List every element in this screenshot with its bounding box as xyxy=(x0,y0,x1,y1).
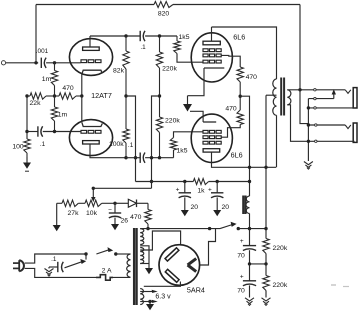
jack J2 tip spring xyxy=(345,125,351,129)
node 82k top xyxy=(124,34,127,37)
wire plate1 line xyxy=(212,27,277,79)
wire cap to grid xyxy=(46,62,81,64)
beamplates 6L6 2 xyxy=(203,141,208,144)
plate 6L6 2 xyxy=(203,149,220,152)
wire bias-B line xyxy=(136,181,194,183)
screen 6L6 2 xyxy=(203,136,208,139)
rectifier filament xyxy=(188,259,197,265)
resistor 220k grid1 xyxy=(159,36,161,52)
transformer OT secondary xyxy=(287,90,291,105)
svg-text:.1: .1 xyxy=(40,141,46,148)
svg-text:100k: 100k xyxy=(109,141,124,148)
svg-text:220k: 220k xyxy=(165,118,180,125)
wire plate line A right xyxy=(145,35,177,37)
node B+ choke xyxy=(248,227,251,230)
wire cathode A down xyxy=(81,74,83,96)
node heater gnd xyxy=(148,300,151,303)
svg-text:.1: .1 xyxy=(51,256,57,263)
svg-text:−: − xyxy=(108,207,112,214)
cathode 12AT7 B xyxy=(82,123,102,127)
capacitor .1 input2 xyxy=(37,126,39,136)
capacitor .1 line xyxy=(57,262,59,272)
svg-text:20: 20 xyxy=(222,204,230,211)
wire left column top xyxy=(26,96,28,138)
svg-text:820: 820 xyxy=(158,11,170,18)
wire plate A up xyxy=(89,36,91,47)
rectifier 5AR4 envelope xyxy=(159,245,200,286)
node plate B line xyxy=(124,156,127,159)
svg-text:.1: .1 xyxy=(140,44,146,51)
wire screen node right xyxy=(240,96,249,196)
node jack2 sleeve circ xyxy=(315,140,317,142)
ground cap20b xyxy=(216,209,218,211)
node grid junction xyxy=(53,61,56,64)
screen 6L6 1 xyxy=(203,54,208,57)
node B+ CT xyxy=(264,227,267,230)
wire jack2 tip line xyxy=(308,124,345,126)
rectifier plate top xyxy=(166,249,179,261)
resistor 220k stack1 xyxy=(265,229,267,239)
cathode 6L6 2 xyxy=(203,121,216,123)
plug AC xyxy=(18,260,20,271)
wire OT primary bottom xyxy=(276,115,278,167)
wire cap2 line xyxy=(27,131,38,133)
wire stack mid rail xyxy=(250,263,267,265)
svg-text:470: 470 xyxy=(62,85,74,92)
resistor 1k xyxy=(193,179,208,185)
ground speaker xyxy=(304,162,313,165)
resistor 820 xyxy=(154,2,173,8)
resistor 470 screen1 xyxy=(237,67,243,82)
wire deathcap gnd xyxy=(49,266,58,268)
plate 12AT7 A xyxy=(83,47,100,50)
wire cathode2 up xyxy=(190,111,203,122)
transformer PT HV lower xyxy=(140,248,144,264)
node 1m2 bottom xyxy=(53,130,56,133)
svg-text:10k: 10k xyxy=(86,210,98,217)
wire fuse to PT xyxy=(113,276,131,278)
transformer PT heater xyxy=(140,289,144,305)
wire top feedback line right xyxy=(173,4,300,6)
capacitor 70 b xyxy=(249,264,251,281)
scan marks xyxy=(331,284,336,286)
node 220k1 top xyxy=(158,34,161,37)
svg-text:1m: 1m xyxy=(42,76,52,83)
node tail junction xyxy=(53,94,56,97)
node jack2 tip junction xyxy=(307,123,310,126)
wire plate1 up xyxy=(211,27,213,41)
svg-text:12AT7: 12AT7 xyxy=(91,91,112,100)
jack J1 switch arrow xyxy=(333,93,335,99)
svg-text:70: 70 xyxy=(237,288,245,295)
node power sw contact xyxy=(114,252,117,255)
resistor 1k5 top xyxy=(176,36,178,41)
wire bias jog xyxy=(152,96,160,188)
wire switch to PT xyxy=(116,253,131,255)
potentiometer 10k xyxy=(85,200,102,206)
svg-text:220k: 220k xyxy=(162,66,177,73)
svg-text:70: 70 xyxy=(237,253,245,260)
ground cap25 xyxy=(114,223,116,225)
node jack2 sleeve junction xyxy=(307,140,310,143)
svg-text:2 A: 2 A xyxy=(102,268,112,275)
rectifier plate bottom xyxy=(166,270,179,281)
wire input to NFB junction xyxy=(6,62,39,64)
node 22k left xyxy=(25,94,28,97)
ground stack cap xyxy=(245,298,254,301)
resistor 470 PI xyxy=(55,95,60,97)
ground HV CT xyxy=(148,267,150,269)
wire plate2 down-right xyxy=(212,152,277,167)
resistor 100k xyxy=(123,129,129,143)
node cap20a top xyxy=(183,180,186,183)
node NFB junction xyxy=(34,61,37,64)
capacitor .001 xyxy=(40,58,42,68)
svg-text:+: + xyxy=(240,238,244,245)
svg-text:6L6: 6L6 xyxy=(233,32,245,41)
svg-text:+: + xyxy=(208,187,212,194)
svg-text:22k: 22k xyxy=(30,100,42,107)
node jack1 tip circ xyxy=(314,89,316,91)
diode D1 xyxy=(115,202,128,204)
svg-text:6L6: 6L6 xyxy=(231,151,243,160)
transformer OT primary xyxy=(273,79,277,115)
wire OT secondary bottom xyxy=(287,105,308,142)
svg-text:220k: 220k xyxy=(273,245,288,252)
node bias 220k junction xyxy=(158,94,161,97)
fuse 2A xyxy=(96,275,113,281)
svg-text:27k: 27k xyxy=(68,210,80,217)
wire heater bottom xyxy=(140,301,153,303)
wire filament to switch xyxy=(200,229,216,265)
capacitor .1 coupling bottom xyxy=(139,153,141,163)
node screen junction xyxy=(239,95,242,98)
cathode 6L6 1 xyxy=(204,67,224,69)
ground bias divider xyxy=(56,222,58,225)
capacitor 70 a xyxy=(243,245,256,247)
wire plate feed top xyxy=(140,231,180,250)
resistor 100 xyxy=(26,138,28,139)
tube 6L6 1 envelope xyxy=(191,33,232,82)
wire heater top xyxy=(140,291,153,293)
svg-text:1k5: 1k5 xyxy=(179,34,190,41)
node bias line cross xyxy=(150,180,153,183)
svg-text:470: 470 xyxy=(225,105,237,112)
svg-text:470: 470 xyxy=(130,214,142,221)
transformer PT primary xyxy=(127,254,131,277)
plate 12AT7 B xyxy=(83,141,100,144)
resistor 1k5 bottom xyxy=(173,150,175,158)
node NFB takeoff xyxy=(298,88,301,91)
grid 12AT7 A xyxy=(81,60,87,63)
ground 6L6 cathodes xyxy=(187,96,189,104)
wire jack2 sleeve line xyxy=(308,140,354,142)
wire cathode B up xyxy=(81,96,83,123)
wire rect bottom plate xyxy=(144,282,181,287)
wire plate B down-right xyxy=(90,144,126,158)
resistor 220k stack2 xyxy=(265,264,267,276)
wire HV lower bottom xyxy=(140,263,149,265)
transformer OT core xyxy=(280,78,282,116)
wire NFB riser left xyxy=(35,5,37,63)
capacitor 25 xyxy=(114,203,116,213)
node cap2 left xyxy=(25,130,28,133)
wire choke to B+ xyxy=(249,214,251,229)
node bias column cross2 xyxy=(150,156,153,159)
node wiper top xyxy=(92,187,95,190)
wire secondary top xyxy=(287,89,345,91)
resistor 470 bias xyxy=(147,203,149,209)
wire HV CT xyxy=(140,246,149,267)
node jack2 tip circ xyxy=(315,124,317,126)
node jack1 sleeve circ xyxy=(314,107,316,109)
node stack mid a xyxy=(248,262,251,265)
wire wiper to bias column xyxy=(93,187,151,189)
node gnd-switch contact xyxy=(84,252,87,255)
switch standby xyxy=(220,225,233,229)
node choke plate cross xyxy=(248,166,251,169)
grid 12AT7 B xyxy=(81,130,87,133)
capacitor 20 b xyxy=(216,182,218,193)
svg-text:100: 100 xyxy=(12,144,24,151)
node sleeve1 junction xyxy=(307,106,310,109)
wire jack1 switch line xyxy=(308,98,333,100)
resistor 220k grid2 xyxy=(156,117,162,133)
wire screen1 to 470 xyxy=(221,55,240,67)
wire B+ CT drop xyxy=(265,95,267,228)
svg-text:+: + xyxy=(240,274,244,281)
node cathode junction xyxy=(80,94,83,97)
plate 6L6 1 xyxy=(203,41,220,45)
svg-text:5AR4: 5AR4 xyxy=(187,286,205,295)
svg-text:+: + xyxy=(176,187,180,194)
node 1k right end xyxy=(248,180,251,183)
switch ground xyxy=(65,262,83,268)
wire plate line B xyxy=(126,157,140,159)
svg-text:220k: 220k xyxy=(273,282,288,289)
wire stack column left xyxy=(249,229,251,246)
wire plug bottom xyxy=(25,268,96,277)
wire bias gnd corner xyxy=(56,203,58,222)
ground line cap xyxy=(45,269,54,272)
svg-text:.001: .001 xyxy=(36,48,49,55)
jack J2 body xyxy=(353,123,357,142)
wire jack1 sleeve line xyxy=(308,107,353,109)
svg-text:20: 20 xyxy=(191,204,199,211)
switch power xyxy=(96,250,109,254)
wire PI B+ jog xyxy=(126,96,136,182)
transformer PT core xyxy=(133,228,135,305)
wire B+ line xyxy=(238,228,266,230)
wire NFB to jack2 xyxy=(300,90,308,125)
node bias cap junction xyxy=(113,202,116,205)
node rect cathode junction xyxy=(208,227,211,230)
node B+ PI xyxy=(124,94,127,97)
node standby contact xyxy=(237,227,240,230)
node bias column cross1 xyxy=(134,156,137,159)
svg-text:1m: 1m xyxy=(58,112,68,119)
resistor 1m lower xyxy=(54,96,56,107)
wire HV top line xyxy=(140,228,220,230)
triode 12AT7 B envelope xyxy=(69,120,112,156)
capacitor 20 a xyxy=(184,182,186,193)
wire top feedback line left xyxy=(36,4,154,6)
node stack mid b xyxy=(264,262,267,265)
jack J1 tip spring xyxy=(345,90,351,94)
jack J1 body xyxy=(353,88,357,108)
ground input xyxy=(26,157,28,163)
transformer PT HV upper xyxy=(140,229,144,245)
node jack1 sw circ xyxy=(314,97,316,99)
svg-text:.1: .1 xyxy=(128,142,134,149)
input jack J1 xyxy=(1,61,5,65)
resistor 470 screen2 xyxy=(237,110,243,125)
wire plate line A xyxy=(90,35,140,37)
wire screen2 to 470 xyxy=(221,125,240,138)
svg-text:6.3 v: 6.3 v xyxy=(155,294,171,301)
resistor 27k xyxy=(57,202,62,204)
resistor 82k xyxy=(125,36,127,51)
svg-text:82k: 82k xyxy=(113,68,125,75)
node cap20b top xyxy=(216,180,219,183)
node 220k2 bottom xyxy=(158,156,161,159)
grid 6L6 2 xyxy=(203,130,208,133)
grid 6L6 1 xyxy=(203,60,208,63)
choke L1 xyxy=(246,196,250,214)
wire jack ground column xyxy=(307,99,309,161)
resistor 22k xyxy=(27,95,30,97)
svg-text:470: 470 xyxy=(246,74,258,81)
ground stack res xyxy=(262,298,271,301)
svg-text:26: 26 xyxy=(121,218,129,225)
resistor 1m upper xyxy=(54,63,56,71)
ground cap20a xyxy=(184,209,186,211)
wire NFB drop right xyxy=(299,5,301,90)
pot 10k wiper xyxy=(92,188,94,197)
wire plug top xyxy=(25,254,86,263)
svg-text:1k5: 1k5 xyxy=(177,148,188,155)
beamplates 6L6 1 xyxy=(203,49,208,52)
wire cathode1 down xyxy=(188,68,205,96)
node 470 bias bottom xyxy=(146,227,149,230)
choke core xyxy=(242,196,244,215)
svg-text:1k: 1k xyxy=(197,188,205,195)
triode 12AT7 A envelope xyxy=(69,39,112,76)
node CT plate cross xyxy=(264,166,267,169)
wire OT CT tap xyxy=(266,94,277,96)
capacitor .1 coupling top xyxy=(139,31,141,41)
tube 6L6 2 envelope xyxy=(191,114,232,162)
cathode 12AT7 A xyxy=(82,70,102,74)
ground heater xyxy=(149,302,151,305)
